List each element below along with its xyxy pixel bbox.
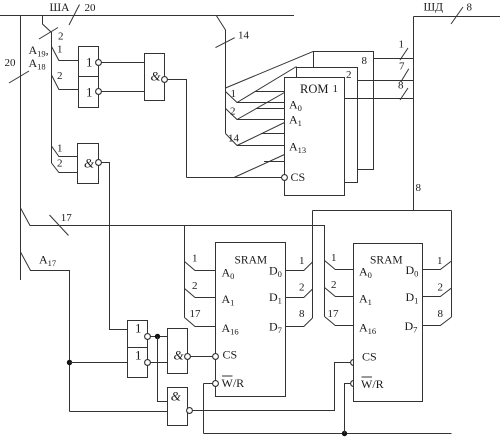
svg-text:1: 1 — [331, 252, 337, 264]
wire W/R tap down to bottom bus — [203, 384, 205, 434]
wire ROM output 1 — [374, 39, 414, 61]
wire SRAM2 D7 flag 8 — [423, 308, 452, 326]
bus ШД horizontal line — [414, 16, 500, 18]
wire diagonal to back chip A0 — [226, 51, 314, 88]
wire ROM output 7 — [358, 61, 414, 83]
wire data bus to SRAM bundles — [313, 210, 452, 212]
nand gate D2 — [145, 54, 168, 101]
wire junction down to D6 — [158, 337, 168, 402]
svg-text:20: 20 — [85, 2, 97, 14]
wire D4.2 output to D5 — [150, 362, 167, 364]
bus 17-bit address horizontal — [21, 208, 325, 317]
bus ША horizontal line — [0, 15, 294, 17]
svg-text:ROM: ROM — [300, 82, 328, 96]
wire SRAM2 D1 flag 2 — [423, 282, 452, 297]
svg-text:8: 8 — [299, 308, 305, 320]
wire D1.1 output to D2 — [101, 62, 144, 64]
SRAM2 chip — [354, 244, 423, 402]
wire D4.1 output to D5 — [150, 336, 167, 338]
svg-text:17: 17 — [328, 308, 340, 320]
svg-text:20: 20 — [5, 57, 17, 69]
svg-text:W/R: W/R — [361, 377, 384, 391]
SRAM1 chip — [216, 243, 286, 397]
svg-text:1: 1 — [86, 85, 93, 100]
wire A17 to nand D6 — [70, 411, 168, 413]
wire diagonal A1 to middle chip — [237, 93, 285, 120]
wire bit1 to nand D3 — [52, 143, 78, 157]
inverter D4.1 — [128, 321, 151, 348]
svg-text:1: 1 — [86, 55, 93, 70]
nand gate D5 — [168, 329, 191, 374]
wire SRAM2 D0 flag 1 — [423, 255, 452, 270]
svg-text:8: 8 — [398, 80, 404, 92]
node junction A17 to D4.2 — [67, 360, 72, 365]
svg-text:1: 1 — [135, 321, 142, 336]
svg-text:2: 2 — [58, 31, 64, 43]
svg-text:2: 2 — [230, 106, 236, 118]
svg-text:8: 8 — [362, 55, 368, 67]
wire bottom W/R bus — [204, 433, 452, 435]
wire bit2 to nand D3 — [52, 158, 78, 173]
wire ROM A0 with flag 1 — [226, 88, 285, 103]
SRAM1 address bundle vertical — [184, 226, 186, 318]
svg-text:1: 1 — [299, 255, 305, 267]
bus ШД vertical line — [413, 17, 415, 211]
svg-text:ШД: ШД — [424, 2, 444, 14]
wire A19/A18 bundle from bus — [43, 16, 52, 164]
bus ШД label — [424, 2, 473, 25]
svg-text:8: 8 — [416, 182, 422, 194]
wire left 20-bit address tap vertical — [20, 16, 22, 281]
svg-text:1: 1 — [135, 348, 142, 363]
pin SRAM2 CS bubble — [351, 360, 357, 366]
wire SRAM1 A1 flag 2 — [185, 280, 216, 298]
svg-text:ША: ША — [50, 2, 71, 14]
svg-text:W/R: W/R — [222, 376, 245, 390]
label 20 with slash on left tap — [5, 57, 30, 83]
svg-text:SRAM: SRAM — [235, 255, 268, 267]
wire D2 output to ROM CS — [167, 80, 186, 178]
wire D6 output to SRAM2 CS — [192, 363, 350, 411]
wire diagonal CS to middle chip — [234, 155, 285, 178]
svg-text:CS: CS — [362, 350, 377, 364]
svg-text:1: 1 — [437, 255, 443, 267]
node junction bottom bus to SRAM2 W/R — [342, 431, 347, 436]
wire SRAM2 W/R from bottom bus — [345, 384, 351, 434]
wire D1.2 output to D2 — [101, 91, 144, 93]
wire SRAM2 A0 flag 1 — [325, 252, 354, 270]
wire A17 to inverter D4.2 — [70, 362, 128, 364]
svg-text:2: 2 — [57, 158, 63, 170]
wire ROM A1 with flag 2 — [226, 106, 285, 120]
wire SRAM1 A0 flag 1 — [185, 253, 216, 271]
label 2 with slash on A19/A18 bundle — [39, 28, 64, 43]
svg-text:CS: CS — [223, 348, 238, 362]
svg-text:17: 17 — [61, 212, 73, 224]
svg-text:2: 2 — [299, 282, 305, 294]
svg-text:2: 2 — [331, 279, 337, 291]
wire ROM A13 with flag 14 — [226, 133, 285, 146]
pin SRAM1 W/R bubble and wire — [204, 381, 219, 387]
wire ROM CS — [187, 177, 282, 179]
svg-text:SRAM: SRAM — [370, 255, 403, 267]
ROM front chip 1 — [285, 78, 345, 196]
wire SRAM1 D1 flag 2 — [286, 282, 313, 298]
wire bit2 to inverter D1.2 — [52, 70, 79, 90]
svg-text:2: 2 — [346, 69, 352, 81]
ROM back chip 8 — [314, 52, 374, 170]
svg-text:1: 1 — [57, 143, 63, 155]
wire D3 output down to D4.1 — [101, 163, 127, 330]
wire A17 tap — [21, 252, 70, 412]
svg-text:CS: CS — [291, 170, 306, 184]
wire ROM 14-bit bundle from bus — [216, 16, 225, 134]
bus ША label — [50, 2, 97, 25]
wire diagonal A0 to middle chip — [237, 67, 297, 103]
wire SRAM2 A16 flag 17 — [325, 308, 354, 326]
svg-text:1: 1 — [231, 88, 237, 100]
svg-text:&: & — [151, 68, 162, 83]
svg-text:17: 17 — [190, 308, 202, 320]
wire SRAM1 A16 flag 17 — [185, 308, 216, 327]
label 17 with slash on address bus — [50, 212, 73, 236]
inverter D4.2 — [128, 348, 151, 378]
svg-text:1: 1 — [192, 253, 198, 265]
wire diagonal A13 to middle chip — [237, 123, 285, 146]
svg-text:8: 8 — [467, 2, 473, 14]
wire SRAM2 A1 flag 2 — [325, 279, 354, 297]
inverter D1.2 — [79, 77, 102, 108]
inverter D1.1 — [79, 47, 102, 77]
pin SRAM2 W/R bubble — [351, 381, 357, 387]
wire ROM output 8 — [345, 80, 414, 101]
svg-text:8: 8 — [438, 308, 444, 320]
svg-text:&: & — [174, 348, 185, 363]
node junction D4.1 output — [155, 334, 160, 339]
svg-text:7: 7 — [399, 61, 405, 73]
svg-text:2: 2 — [192, 280, 198, 292]
wire SRAM1 D0 flag 1 — [286, 255, 313, 271]
svg-text:1: 1 — [399, 39, 405, 51]
svg-text:1: 1 — [57, 44, 63, 56]
pin ROM CS bubble — [282, 175, 288, 181]
ROM middle chip 2 — [297, 68, 358, 183]
svg-text:&: & — [84, 156, 95, 171]
svg-text:14: 14 — [238, 30, 250, 42]
label 14 with slash on ROM bundle — [216, 30, 250, 48]
nand gate D6 — [168, 388, 193, 426]
svg-text:2: 2 — [438, 282, 444, 294]
pin SRAM1 CS bubble and wire — [191, 354, 219, 360]
SRAM2 data bundle vertical — [451, 211, 453, 318]
SRAM1 data bundle vertical — [312, 211, 314, 319]
wire SRAM1 D7 flag 8 — [286, 308, 313, 327]
svg-text:&: & — [171, 389, 182, 404]
wire bit1 to inverter D1.1 — [52, 44, 79, 61]
svg-text:14: 14 — [228, 133, 240, 145]
svg-text:2: 2 — [57, 70, 63, 82]
svg-text:1: 1 — [333, 83, 339, 95]
nand gate D3 — [78, 144, 102, 184]
